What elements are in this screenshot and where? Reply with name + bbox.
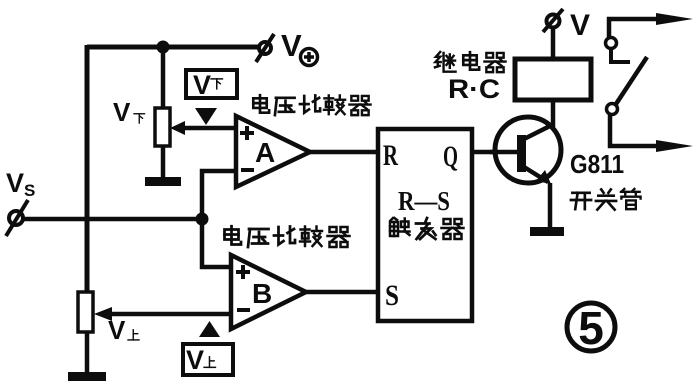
wire node to comparator B plus input (202, 219, 231, 267)
svg-text:V: V (113, 97, 131, 127)
wire junction to RP1 (161, 47, 166, 109)
ground below RP1 (145, 146, 181, 186)
wire relay to terminal V (551, 28, 556, 59)
relay K1 coil (515, 59, 591, 100)
node Vs junction (196, 213, 209, 226)
svg-text:Q: Q (443, 140, 458, 173)
label 开关管 (571, 189, 641, 210)
svg-text:5: 5 (578, 302, 604, 354)
node junction top rail (157, 41, 170, 54)
transistor Q1 (490, 117, 561, 184)
label 电压比较器 upper (253, 95, 370, 115)
op-amp comparator A (236, 116, 310, 187)
label 继电器 (435, 52, 506, 72)
flip-flop U3 R-S (378, 129, 472, 321)
wire RP1 wiper to comparator A plus input (180, 126, 240, 131)
svg-text:R—S: R—S (398, 186, 450, 216)
op-amp comparator B (231, 255, 306, 329)
label V下 left of RP1 (113, 97, 145, 127)
svg-text:V: V (186, 345, 204, 375)
arrow marker V下 down (195, 108, 217, 125)
label V+ (281, 28, 318, 66)
wire RP2 wiper to comparator B minus input (106, 312, 231, 317)
wire Vs to node (22, 217, 202, 222)
ground below Q1 emitter (530, 227, 564, 236)
svg-text:B: B (252, 278, 272, 309)
label box V下 (186, 70, 237, 100)
svg-text:A: A (255, 137, 275, 168)
switch contact upper (606, 38, 631, 63)
svg-text:V: V (108, 315, 126, 345)
svg-text:V: V (193, 70, 211, 100)
terminal V+ (256, 34, 274, 62)
svg-text:R: R (383, 139, 398, 172)
potentiometer RP2 V上 (78, 292, 112, 332)
terminal V relay supply (543, 9, 563, 32)
potentiometer RP1 V下 (155, 108, 185, 146)
arrow marker V上 up (199, 321, 220, 337)
wire lower contact to off-page arrow (610, 115, 693, 152)
svg-text:G811: G811 (570, 149, 624, 179)
svg-text:S: S (24, 181, 35, 200)
wire Q output to transistor base (472, 150, 522, 155)
label V上 right of RP2 (108, 315, 139, 345)
label 触发器 (390, 218, 464, 239)
wire transistor emitter down (548, 183, 553, 228)
wire top rail (87, 45, 259, 50)
svg-text:V: V (570, 9, 590, 42)
svg-text:S: S (385, 279, 399, 312)
label 电压比较器 lower (225, 226, 350, 247)
wire A minus input to node Vs (202, 171, 236, 219)
svg-text:V: V (6, 168, 24, 198)
wire A output to R input (310, 150, 378, 155)
label box V上 (183, 344, 233, 375)
wire B output to S input (306, 290, 378, 295)
wire transistor collector to relay (551, 100, 556, 127)
terminal Vs (6, 200, 28, 236)
label Vs (6, 168, 35, 200)
wire upper contact to off-page arrow (609, 13, 693, 37)
ground below RP2 (68, 332, 106, 381)
wire left vertical (85, 45, 90, 293)
switch contact lower (607, 104, 618, 115)
svg-text:R·C: R·C (448, 74, 500, 104)
figure number 5 (567, 302, 615, 354)
switch lever (616, 57, 647, 104)
